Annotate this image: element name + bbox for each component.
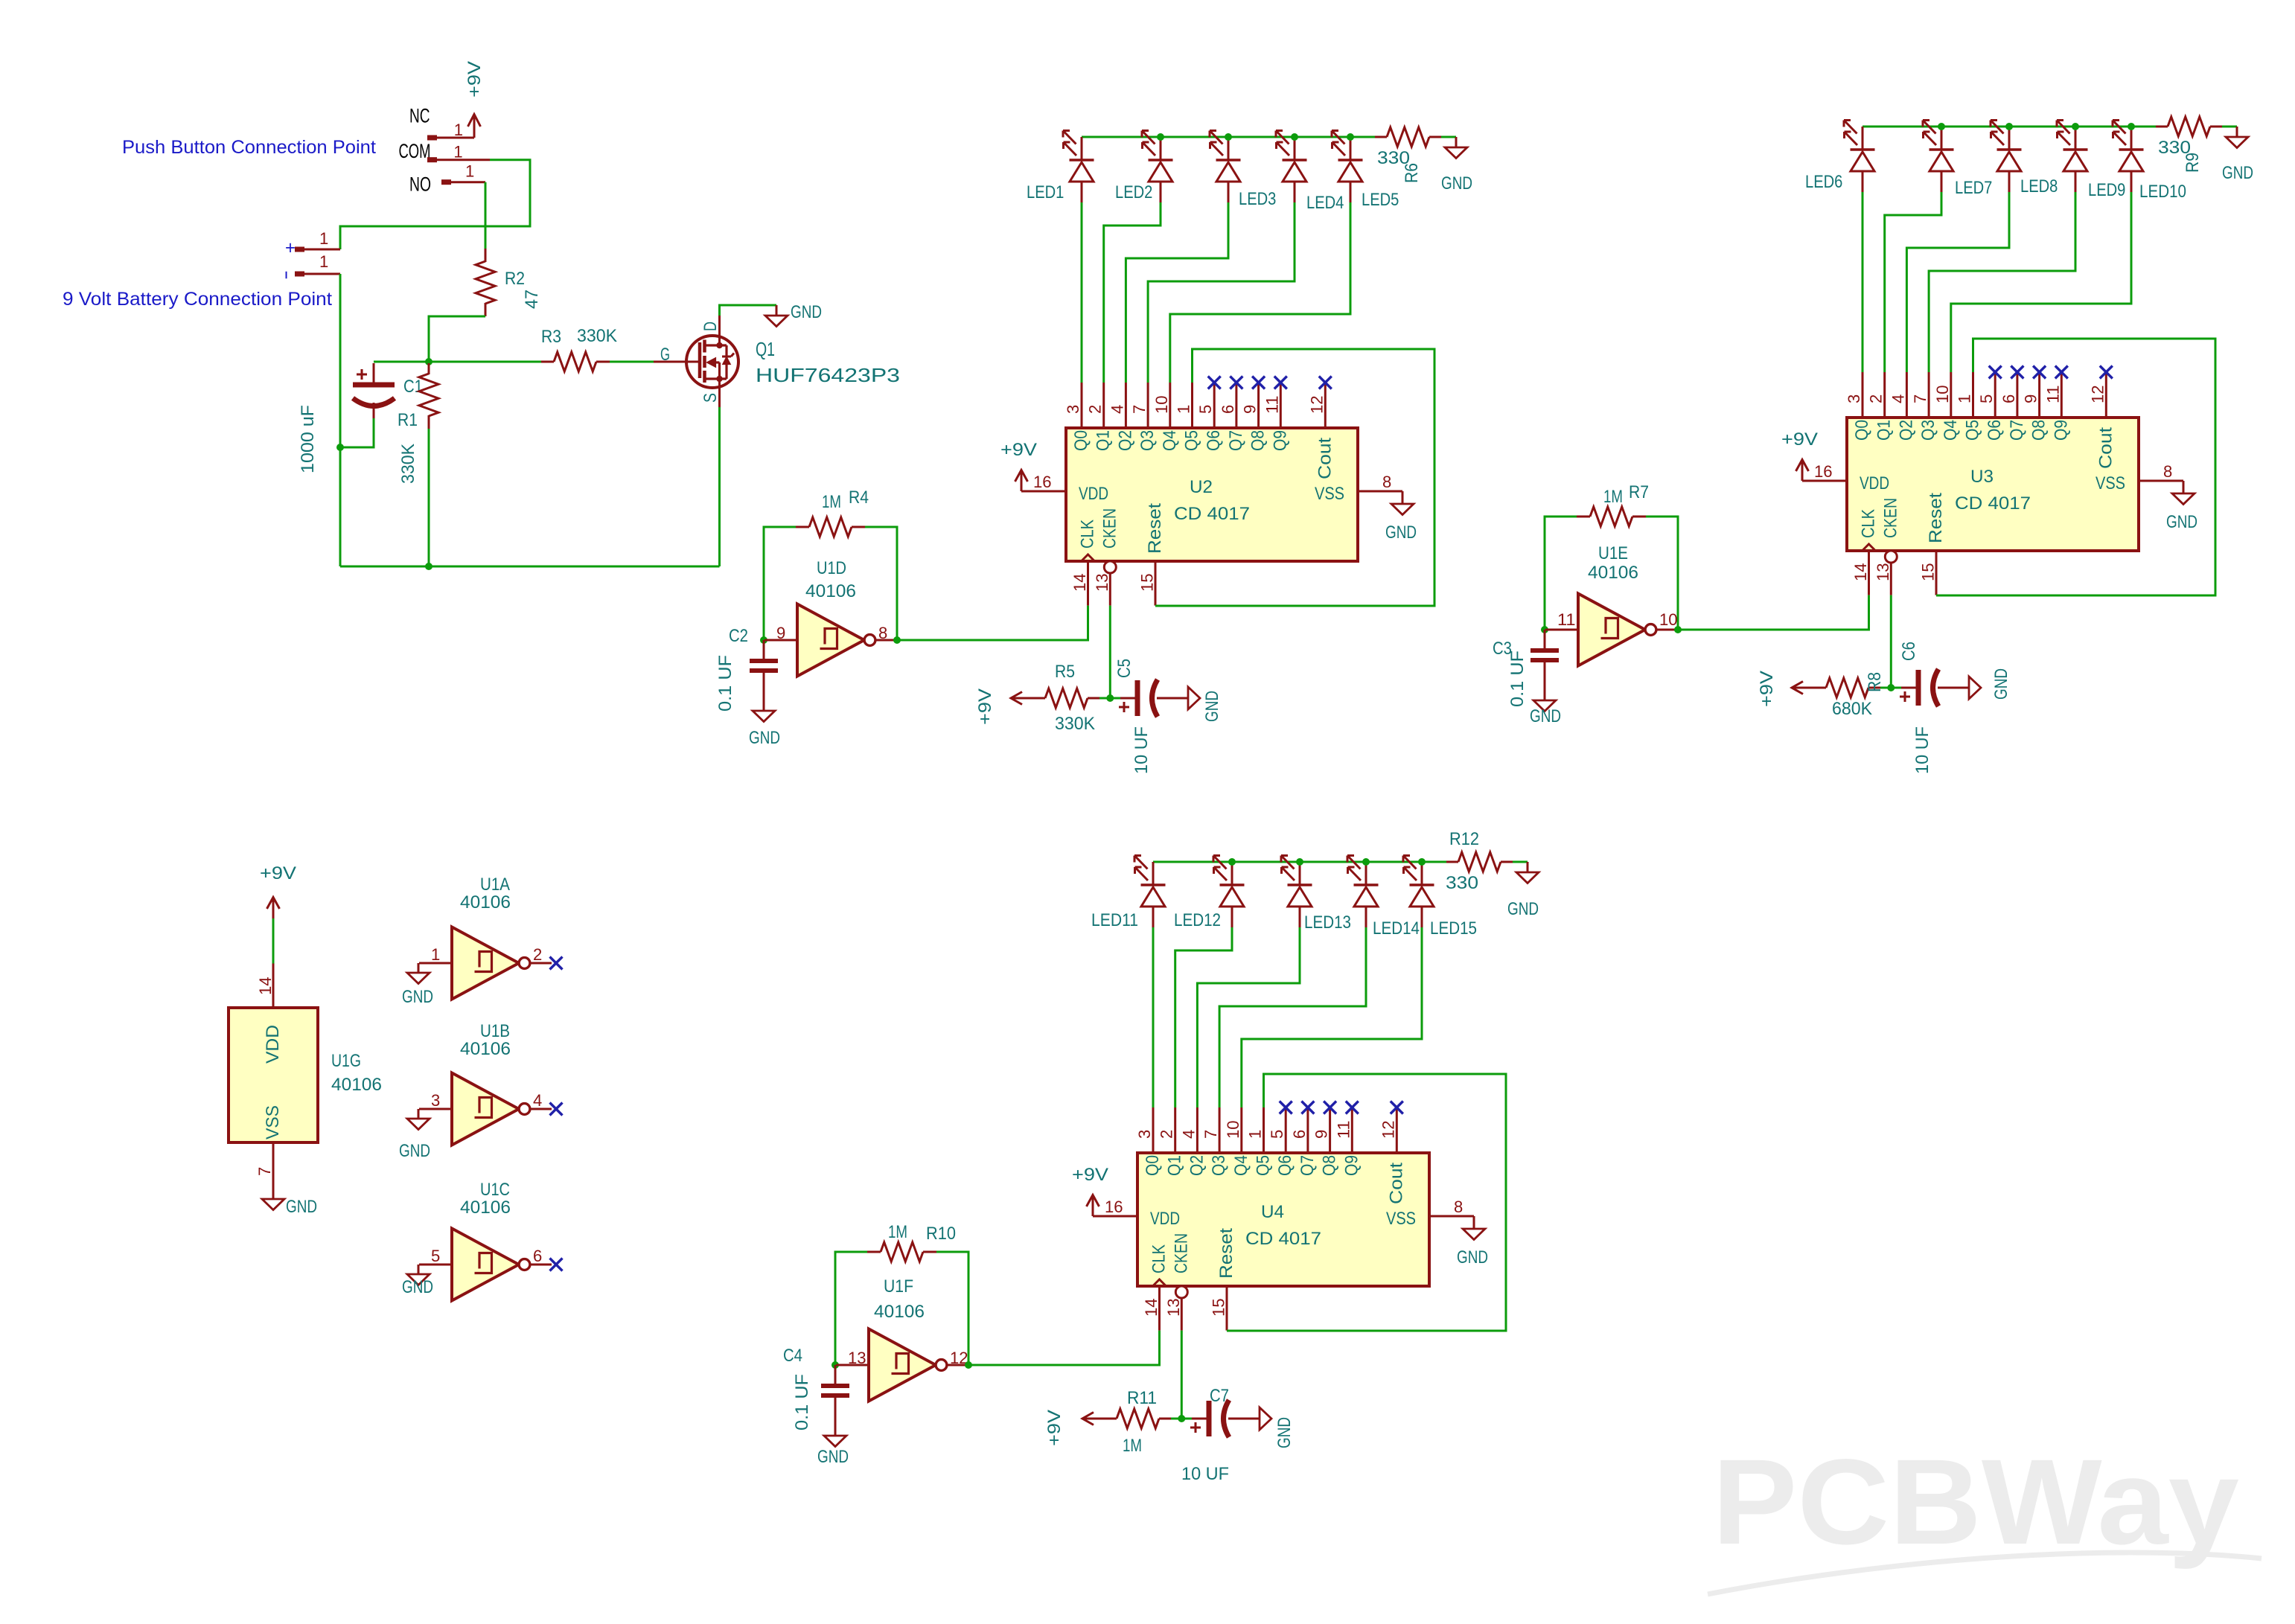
svg-text:Q8: Q8 xyxy=(2029,420,2049,441)
IC U1G 40106 power unit body xyxy=(229,1008,318,1142)
wire Q5 to Reset loop of U2 xyxy=(1155,349,1434,606)
pin 16 VDD of U2 with +9V power xyxy=(1021,490,1066,493)
resistor R2 xyxy=(485,249,487,262)
svg-text:4: 4 xyxy=(533,1091,542,1110)
resistor feedback 1M xyxy=(1577,516,1590,518)
svg-text:LED1: LED1 xyxy=(1027,182,1064,202)
svg-text:VSS: VSS xyxy=(1315,484,1344,504)
svg-text:U2: U2 xyxy=(1190,477,1213,497)
ground at input xyxy=(418,963,420,973)
pin 11 Q9 of U3 xyxy=(2061,372,2063,418)
svg-text:Q3: Q3 xyxy=(1918,420,1938,441)
wire xyxy=(1099,697,1120,700)
wire LED15 to pin xyxy=(1242,927,1422,1107)
svg-text:U1A: U1A xyxy=(480,875,510,895)
wire bottom rail xyxy=(340,566,720,568)
svg-text:VDD: VDD xyxy=(263,1025,283,1064)
svg-text:10 UF: 10 UF xyxy=(1131,726,1152,774)
svg-text:Q9: Q9 xyxy=(2051,420,2071,441)
power +9V at push button xyxy=(473,115,476,138)
resistor 330 xyxy=(1375,136,1387,138)
pin 6 Q7 of U3 xyxy=(2016,372,2018,418)
svg-text:LED15: LED15 xyxy=(1430,918,1477,939)
svg-text:14: 14 xyxy=(1070,573,1089,592)
wire CKEN down xyxy=(1109,606,1111,698)
svg-text:5: 5 xyxy=(1196,405,1215,414)
svg-text:1: 1 xyxy=(319,252,328,271)
no-connect X xyxy=(1324,1102,1336,1114)
svg-text:LED5: LED5 xyxy=(1362,190,1399,210)
svg-text:1M: 1M xyxy=(1603,487,1623,507)
wire inverter out to CLK xyxy=(1678,595,1869,630)
svg-text:LED11: LED11 xyxy=(1091,910,1138,930)
no-connect X xyxy=(1230,377,1242,389)
svg-text:VSS: VSS xyxy=(1386,1209,1416,1229)
pin 12 Cout of U2 xyxy=(1324,383,1327,428)
junction xyxy=(425,563,432,570)
wire C1 to node xyxy=(374,361,429,363)
svg-text:Q6: Q6 xyxy=(1275,1155,1295,1176)
svg-text:40106: 40106 xyxy=(460,1039,511,1059)
wire LED7 to pin xyxy=(1885,192,1941,372)
wire LED1 to pin xyxy=(1081,202,1083,383)
svg-text:U1D: U1D xyxy=(817,558,846,578)
svg-text:3: 3 xyxy=(431,1091,440,1110)
svg-text:1000 uF: 1000 uF xyxy=(298,405,318,473)
pin 14 CLK of U3 xyxy=(1868,551,1870,595)
svg-text:11: 11 xyxy=(1557,610,1576,629)
wire drain to GND xyxy=(718,316,721,345)
svg-text:Q0: Q0 xyxy=(1143,1155,1163,1176)
capacitor input 0.1uF xyxy=(834,1365,837,1386)
no-connect X xyxy=(1252,377,1265,389)
wire xyxy=(419,1108,452,1110)
svg-text:GND: GND xyxy=(749,728,780,748)
resistor R timing xyxy=(1826,678,1868,697)
svg-text:VDD: VDD xyxy=(1150,1209,1180,1229)
svg-text:9: 9 xyxy=(1241,405,1260,414)
svg-text:Q5: Q5 xyxy=(1254,1155,1274,1176)
svg-text:1M: 1M xyxy=(1123,1436,1142,1456)
svg-text:40106: 40106 xyxy=(331,1075,382,1095)
wire R2 to node xyxy=(429,316,485,362)
junction xyxy=(1347,133,1354,141)
pin 10 Q4 of U4 xyxy=(1240,1107,1242,1153)
pin 6 Q7 of U4 xyxy=(1306,1107,1309,1153)
svg-text:+9V: +9V xyxy=(465,61,485,97)
svg-text:GND: GND xyxy=(2166,512,2197,532)
svg-text:C2: C2 xyxy=(729,626,748,646)
pin 13 CKEN of U2 xyxy=(1104,561,1116,573)
wire LED14 to pin xyxy=(1219,927,1366,1107)
svg-text:GND: GND xyxy=(402,987,433,1007)
pin 14 CLK of U2 xyxy=(1087,561,1089,606)
pin 10 Q4 of U2 xyxy=(1169,383,1171,428)
svg-text:Q5: Q5 xyxy=(1182,430,1202,451)
ground xyxy=(1533,700,1556,712)
resistor R1 330K xyxy=(428,362,430,374)
svg-text:GND: GND xyxy=(1441,173,1472,194)
svg-text:1M: 1M xyxy=(822,492,841,512)
no-connect X xyxy=(1319,377,1332,389)
wire LED11 to pin xyxy=(1152,927,1155,1107)
svg-text:+9V: +9V xyxy=(975,688,995,725)
svg-text:Q2: Q2 xyxy=(1187,1155,1207,1176)
svg-text:GND: GND xyxy=(1385,522,1417,543)
svg-text:1: 1 xyxy=(454,121,463,139)
svg-text:9: 9 xyxy=(2022,394,2040,403)
pin 12 Cout of U4 xyxy=(1396,1107,1398,1153)
svg-text:6: 6 xyxy=(1999,394,2018,403)
svg-text:+9V: +9V xyxy=(260,863,296,883)
svg-text:4: 4 xyxy=(1108,405,1126,414)
svg-text:C4: C4 xyxy=(783,1346,802,1366)
svg-text:GND: GND xyxy=(1202,691,1222,722)
svg-text:10 UF: 10 UF xyxy=(1912,726,1932,774)
junction xyxy=(2005,123,2013,130)
svg-text:R2: R2 xyxy=(505,269,525,289)
wire xyxy=(836,1364,869,1366)
pin 4 Q2 of U2 xyxy=(1125,383,1127,428)
svg-text:GND: GND xyxy=(2222,163,2253,183)
svg-text:3: 3 xyxy=(1135,1130,1154,1139)
wire LED3 to pin xyxy=(1126,202,1228,383)
svg-text:12: 12 xyxy=(2088,385,2107,403)
svg-text:1: 1 xyxy=(465,162,474,181)
svg-text:CLK: CLK xyxy=(1078,520,1098,549)
svg-text:GND: GND xyxy=(1274,1417,1295,1448)
pin 7 Q3 of U3 xyxy=(1928,372,1930,418)
svg-text:VDD: VDD xyxy=(1860,473,1889,493)
pin 3 Q0 of U4 xyxy=(1152,1107,1155,1153)
svg-text:330K: 330K xyxy=(577,326,617,346)
wire xyxy=(1545,629,1578,631)
svg-text:U3: U3 xyxy=(1970,467,1994,487)
no-connect X xyxy=(2033,366,2046,379)
wire LED bus xyxy=(1863,126,2156,128)
svg-text:GND: GND xyxy=(286,1197,317,1217)
svg-text:13: 13 xyxy=(848,1349,866,1367)
wire LED bus xyxy=(1082,136,1375,138)
svg-text:GND: GND xyxy=(817,1447,849,1467)
resistor feedback 1M xyxy=(796,526,809,528)
svg-text:Q2: Q2 xyxy=(1115,430,1135,451)
resistor R3 330K xyxy=(541,361,554,363)
pin 9 Q8 of U4 xyxy=(1329,1107,1331,1153)
svg-text:+9V: +9V xyxy=(1044,1410,1064,1446)
no-connect X xyxy=(1346,1102,1359,1114)
pin 3 Q0 of U2 xyxy=(1081,383,1083,428)
svg-text:LED13: LED13 xyxy=(1304,912,1351,933)
svg-text:11: 11 xyxy=(1334,1120,1353,1139)
wire R1 to rail xyxy=(428,429,430,566)
wire LED2 to pin xyxy=(1104,202,1161,383)
ground at input xyxy=(418,1109,420,1119)
pin 13 CKEN of U3 xyxy=(1885,551,1897,563)
svg-text:C1: C1 xyxy=(403,377,423,397)
svg-text:330K: 330K xyxy=(398,444,418,484)
ground xyxy=(2236,127,2238,137)
svg-text:CLK: CLK xyxy=(1149,1244,1169,1273)
junction input xyxy=(760,636,767,644)
wire C1 bottom xyxy=(340,418,374,447)
svg-text:LED2: LED2 xyxy=(1115,182,1152,202)
svg-text:16: 16 xyxy=(1105,1198,1123,1216)
no-connect X xyxy=(1274,377,1287,389)
svg-text:LED6: LED6 xyxy=(1805,172,1842,192)
wire xyxy=(419,962,452,965)
resistor 330 xyxy=(2156,126,2168,128)
svg-text:6: 6 xyxy=(1219,405,1237,414)
wire feedback right xyxy=(936,1252,968,1365)
svg-text:1: 1 xyxy=(453,143,462,162)
svg-text:+9V: +9V xyxy=(1781,429,1818,450)
svg-text:4: 4 xyxy=(1889,394,1907,403)
junction output xyxy=(965,1361,972,1369)
junction xyxy=(1938,123,1945,130)
ground at Q1 drain xyxy=(776,305,778,316)
no-connect X xyxy=(550,1103,563,1116)
resistor R timing xyxy=(1117,1409,1159,1428)
wire Q5 to Reset loop of U4 xyxy=(1227,1074,1506,1331)
wire COM to battery plus xyxy=(340,160,530,249)
svg-text:47: 47 xyxy=(522,290,542,309)
svg-text:7: 7 xyxy=(1911,394,1929,403)
wire xyxy=(419,1264,452,1266)
svg-text:13: 13 xyxy=(1874,563,1892,581)
svg-text:NC: NC xyxy=(409,105,430,127)
svg-text:Q4: Q4 xyxy=(1231,1155,1251,1176)
svg-text:R10: R10 xyxy=(926,1224,956,1244)
wire source to rail xyxy=(718,379,721,407)
svg-text:13: 13 xyxy=(1164,1298,1183,1317)
capacitor input 0.1uF xyxy=(763,640,765,661)
svg-text:Q1: Q1 xyxy=(1874,420,1895,441)
svg-text:3: 3 xyxy=(1845,394,1863,403)
pin 5 Q6 of U2 xyxy=(1213,383,1216,428)
svg-text:Q7: Q7 xyxy=(1297,1155,1318,1176)
svg-text:11: 11 xyxy=(2043,385,2062,403)
no-connect X xyxy=(2011,366,2023,379)
junction output xyxy=(893,636,901,644)
junction xyxy=(1225,133,1232,141)
wire xyxy=(1441,136,1456,138)
power +9V arrow xyxy=(1082,1418,1117,1420)
ground xyxy=(1455,137,1458,147)
ground xyxy=(753,711,775,722)
svg-text:15: 15 xyxy=(1138,573,1157,592)
svg-text:GND: GND xyxy=(1457,1247,1488,1267)
wire xyxy=(1880,687,1901,689)
pin 8 VSS of U2 with GND xyxy=(1358,490,1402,493)
capacitor 10uF polarized xyxy=(1901,687,1916,689)
IC U2 CD4017 body xyxy=(1066,428,1358,561)
svg-text:R7: R7 xyxy=(1629,482,1649,502)
svg-text:680K: 680K xyxy=(1832,699,1872,719)
wire LED4 to pin xyxy=(1148,202,1295,383)
svg-text:6: 6 xyxy=(533,1247,542,1265)
svg-text:R1: R1 xyxy=(398,410,418,430)
IC U4 CD4017 body xyxy=(1137,1153,1429,1286)
svg-text:R8: R8 xyxy=(1865,672,1885,692)
svg-text:1: 1 xyxy=(1246,1130,1265,1139)
wire feedback left xyxy=(835,1252,867,1365)
svg-text:0.1 UF: 0.1 UF xyxy=(1507,650,1528,707)
junction node A xyxy=(425,358,432,365)
svg-text:330: 330 xyxy=(1446,873,1478,893)
pin 15 Reset of U3 xyxy=(1935,551,1938,595)
wire xyxy=(1513,861,1528,863)
junction xyxy=(1887,684,1895,691)
svg-text:U4: U4 xyxy=(1261,1202,1284,1222)
svg-text:1: 1 xyxy=(431,945,440,964)
wire node to R3 xyxy=(429,361,541,363)
no-connect X xyxy=(2055,366,2068,379)
wire CKEN down xyxy=(1890,595,1892,688)
svg-text:4: 4 xyxy=(1179,1130,1198,1139)
svg-text:Q1: Q1 xyxy=(1165,1155,1185,1176)
pin 2 Q1 of U4 xyxy=(1174,1107,1176,1153)
svg-text:Cout: Cout xyxy=(2095,427,2116,469)
svg-text:10: 10 xyxy=(1933,385,1952,403)
no-connect X xyxy=(1301,1102,1314,1114)
pin 2 Q1 of U2 xyxy=(1102,383,1105,428)
pin 1 Q5 of U2 xyxy=(1191,383,1193,428)
IC U3 CD4017 body xyxy=(1847,418,2139,551)
svg-text:13: 13 xyxy=(1093,573,1111,592)
svg-text:5: 5 xyxy=(1268,1130,1286,1139)
LED LED3 xyxy=(1228,137,1230,160)
svg-text:14: 14 xyxy=(1142,1298,1161,1317)
wire battery minus rail xyxy=(339,274,342,566)
svg-text:Q4: Q4 xyxy=(1941,420,1961,441)
svg-text:LED9: LED9 xyxy=(2088,180,2125,200)
svg-text:R11: R11 xyxy=(1127,1388,1157,1408)
svg-text:40106: 40106 xyxy=(805,581,856,601)
junction xyxy=(1157,133,1164,141)
svg-text:R6: R6 xyxy=(1402,163,1422,183)
wire feedback left xyxy=(1545,517,1577,630)
svg-text:Cout: Cout xyxy=(1315,438,1335,479)
svg-text:CD 4017: CD 4017 xyxy=(1174,504,1250,524)
resistor 330 xyxy=(1446,861,1458,863)
svg-text:C5: C5 xyxy=(1114,659,1134,678)
svg-text:40106: 40106 xyxy=(874,1302,925,1322)
capacitor 10uF polarized xyxy=(1192,1418,1207,1420)
svg-text:10 UF: 10 UF xyxy=(1181,1464,1229,1484)
svg-text:Q4: Q4 xyxy=(1160,430,1180,451)
junction xyxy=(1418,858,1426,866)
pin 15 Reset of U2 xyxy=(1155,561,1157,606)
svg-text:0.1 UF: 0.1 UF xyxy=(792,1374,812,1430)
pin 11 Q9 of U4 xyxy=(1351,1107,1353,1153)
no-connect X xyxy=(550,957,563,970)
svg-text:Q1: Q1 xyxy=(756,338,775,360)
LED LED9 xyxy=(2075,127,2077,150)
svg-text:GND: GND xyxy=(1507,899,1539,919)
svg-text:40106: 40106 xyxy=(460,1198,511,1218)
svg-text:8: 8 xyxy=(2163,462,2172,481)
LED LED1 xyxy=(1081,137,1083,160)
svg-text:+9V: +9V xyxy=(1757,671,1777,707)
svg-text:14: 14 xyxy=(256,976,275,995)
LED LED15 xyxy=(1421,862,1423,885)
svg-text:10: 10 xyxy=(1224,1120,1242,1139)
wire LED5 to pin xyxy=(1170,202,1350,383)
svg-text:+9V: +9V xyxy=(1072,1165,1108,1185)
svg-text:C7: C7 xyxy=(1210,1386,1229,1406)
svg-text:GND: GND xyxy=(402,1277,433,1297)
wire xyxy=(2222,126,2237,128)
wire LED9 to pin xyxy=(1929,192,2075,372)
svg-text:Reset: Reset xyxy=(1145,503,1165,554)
svg-text:1M: 1M xyxy=(888,1222,907,1242)
svg-text:LED8: LED8 xyxy=(2020,176,2058,196)
power +9V arrow xyxy=(1792,687,1826,689)
pin 5 Q6 of U3 xyxy=(1994,372,1996,418)
ground at input xyxy=(418,1265,420,1274)
pin 7 Q3 of U2 xyxy=(1147,383,1149,428)
wire LED12 to pin xyxy=(1175,927,1232,1107)
wire feedback right xyxy=(865,527,897,640)
svg-text:R3: R3 xyxy=(541,327,561,347)
svg-text:8: 8 xyxy=(878,624,887,642)
pin 10 Q4 of U3 xyxy=(1950,372,1952,418)
svg-text:Reset: Reset xyxy=(1216,1228,1236,1279)
svg-text:CKEN: CKEN xyxy=(1171,1233,1191,1273)
svg-text:+: + xyxy=(285,237,296,258)
wire LED10 to pin xyxy=(1951,192,2131,372)
no-connect X xyxy=(1391,1102,1403,1114)
LED LED4 xyxy=(1294,137,1296,160)
svg-text:3: 3 xyxy=(1064,405,1082,414)
svg-text:+9V: +9V xyxy=(1000,440,1037,460)
svg-text:Q3: Q3 xyxy=(1137,430,1158,451)
svg-text:D: D xyxy=(700,322,721,331)
wire Q5 to Reset loop of U3 xyxy=(1936,339,2215,595)
svg-text:G: G xyxy=(660,345,670,365)
svg-text:Q3: Q3 xyxy=(1209,1155,1229,1176)
svg-text:C6: C6 xyxy=(1899,642,1919,661)
svg-text:LED7: LED7 xyxy=(1955,178,1992,198)
ground xyxy=(824,1436,846,1447)
svg-text:12: 12 xyxy=(1307,395,1326,414)
svg-text:U1E: U1E xyxy=(1598,543,1628,563)
ground right xyxy=(1260,1407,1271,1430)
svg-text:9: 9 xyxy=(776,624,785,642)
no-connect X xyxy=(1280,1102,1292,1114)
wire LED6 to pin xyxy=(1862,192,1864,372)
junction xyxy=(1228,858,1236,866)
svg-text:40106: 40106 xyxy=(1588,563,1638,583)
transistor Q1 HUF76423P3 xyxy=(654,361,700,363)
svg-text:Q6: Q6 xyxy=(1204,430,1224,451)
wire inverter out to CLK xyxy=(897,606,1088,640)
svg-text:U1B: U1B xyxy=(480,1021,510,1041)
capacitor 10uF polarized xyxy=(1120,697,1135,700)
pin 4 Q2 of U3 xyxy=(1906,372,1908,418)
junction xyxy=(336,444,344,451)
svg-text:2: 2 xyxy=(1158,1130,1176,1139)
svg-text:CKEN: CKEN xyxy=(1880,498,1900,538)
LED LED13 xyxy=(1299,862,1301,885)
svg-text:10: 10 xyxy=(1152,395,1171,414)
svg-text:-: - xyxy=(275,270,296,280)
resistor feedback 1M xyxy=(867,1251,881,1253)
svg-text:330K: 330K xyxy=(1055,714,1095,734)
pin NO of push button xyxy=(441,179,451,185)
pin 9 Q8 of U3 xyxy=(2038,372,2040,418)
